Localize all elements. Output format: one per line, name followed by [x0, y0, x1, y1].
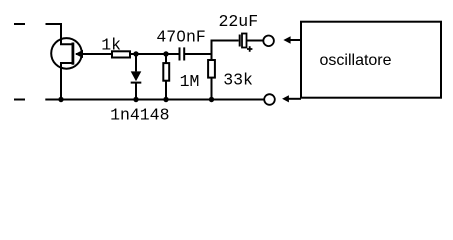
- wire diode to bottom rail: [135, 83, 137, 100]
- wire top rail to drain: [46, 24, 73, 44]
- node A junction dot: [133, 51, 138, 56]
- capacitor C1 470nF left plate: [179, 47, 181, 60]
- transistor Q1 gate arrowhead: [75, 50, 83, 58]
- node source-rail junction dot: [58, 97, 63, 102]
- wire C2 to terminal: [247, 40, 263, 42]
- wire top-left break dash: [14, 23, 25, 25]
- svg-text:1M: 1M: [180, 72, 200, 91]
- wire node A to diode: [135, 54, 137, 71]
- resistor R1 1k body: [112, 51, 130, 57]
- transistor Q1 source lead: [61, 63, 72, 100]
- wire node C vertical: [211, 40, 213, 60]
- wire gate node A to cap: [130, 53, 179, 55]
- bottom rail wire: [45, 99, 263, 101]
- diode D1 1n4148 triangle: [131, 71, 142, 81]
- capacitor C2 22uF positive plate box: [242, 34, 247, 48]
- node R2-rail junction dot: [163, 97, 168, 102]
- svg-text:33k: 33k: [223, 71, 253, 90]
- arrowhead bottom: [282, 95, 289, 102]
- node B junction dot: [163, 51, 168, 56]
- transistor Q1 channel bar: [72, 43, 75, 65]
- terminal T1 output top circle: [263, 36, 274, 47]
- node R3-rail junction dot: [209, 97, 214, 102]
- wire R3 to bottom rail: [211, 78, 213, 100]
- node diode-rail junction dot: [133, 97, 138, 102]
- diode D1 cathode bar: [131, 82, 142, 84]
- wire node B to R2: [165, 54, 167, 63]
- transistor Q1 gate wire: [76, 53, 112, 55]
- svg-text:oscillatore: oscillatore: [320, 52, 392, 69]
- capacitor C2 plus sign: [247, 46, 252, 51]
- oscillatore block box: [301, 22, 441, 98]
- zero glyph dot cover: [180, 35, 183, 38]
- arrow from oscillatore bottom: [289, 98, 302, 100]
- terminal T2 output bottom circle: [264, 94, 275, 105]
- capacitor C2 22uF negative plate: [239, 35, 241, 47]
- capacitor C1 470nF right plate: [183, 47, 185, 60]
- svg-text:22uF: 22uF: [218, 12, 258, 31]
- svg-text:1n4148: 1n4148: [110, 106, 169, 125]
- resistor R2 1M body: [163, 63, 169, 81]
- svg-text:1k: 1k: [101, 35, 121, 54]
- resistor R3 33k body: [208, 60, 215, 78]
- wire C1 to node C: [185, 53, 213, 55]
- arrow from oscillatore top: [290, 39, 301, 41]
- wire R2 to bottom rail: [165, 81, 167, 100]
- arrowhead top: [283, 36, 290, 43]
- wire node C to C2: [211, 40, 239, 42]
- transistor Q1 circle: [51, 38, 82, 69]
- wire bottom-left break dash: [14, 99, 25, 101]
